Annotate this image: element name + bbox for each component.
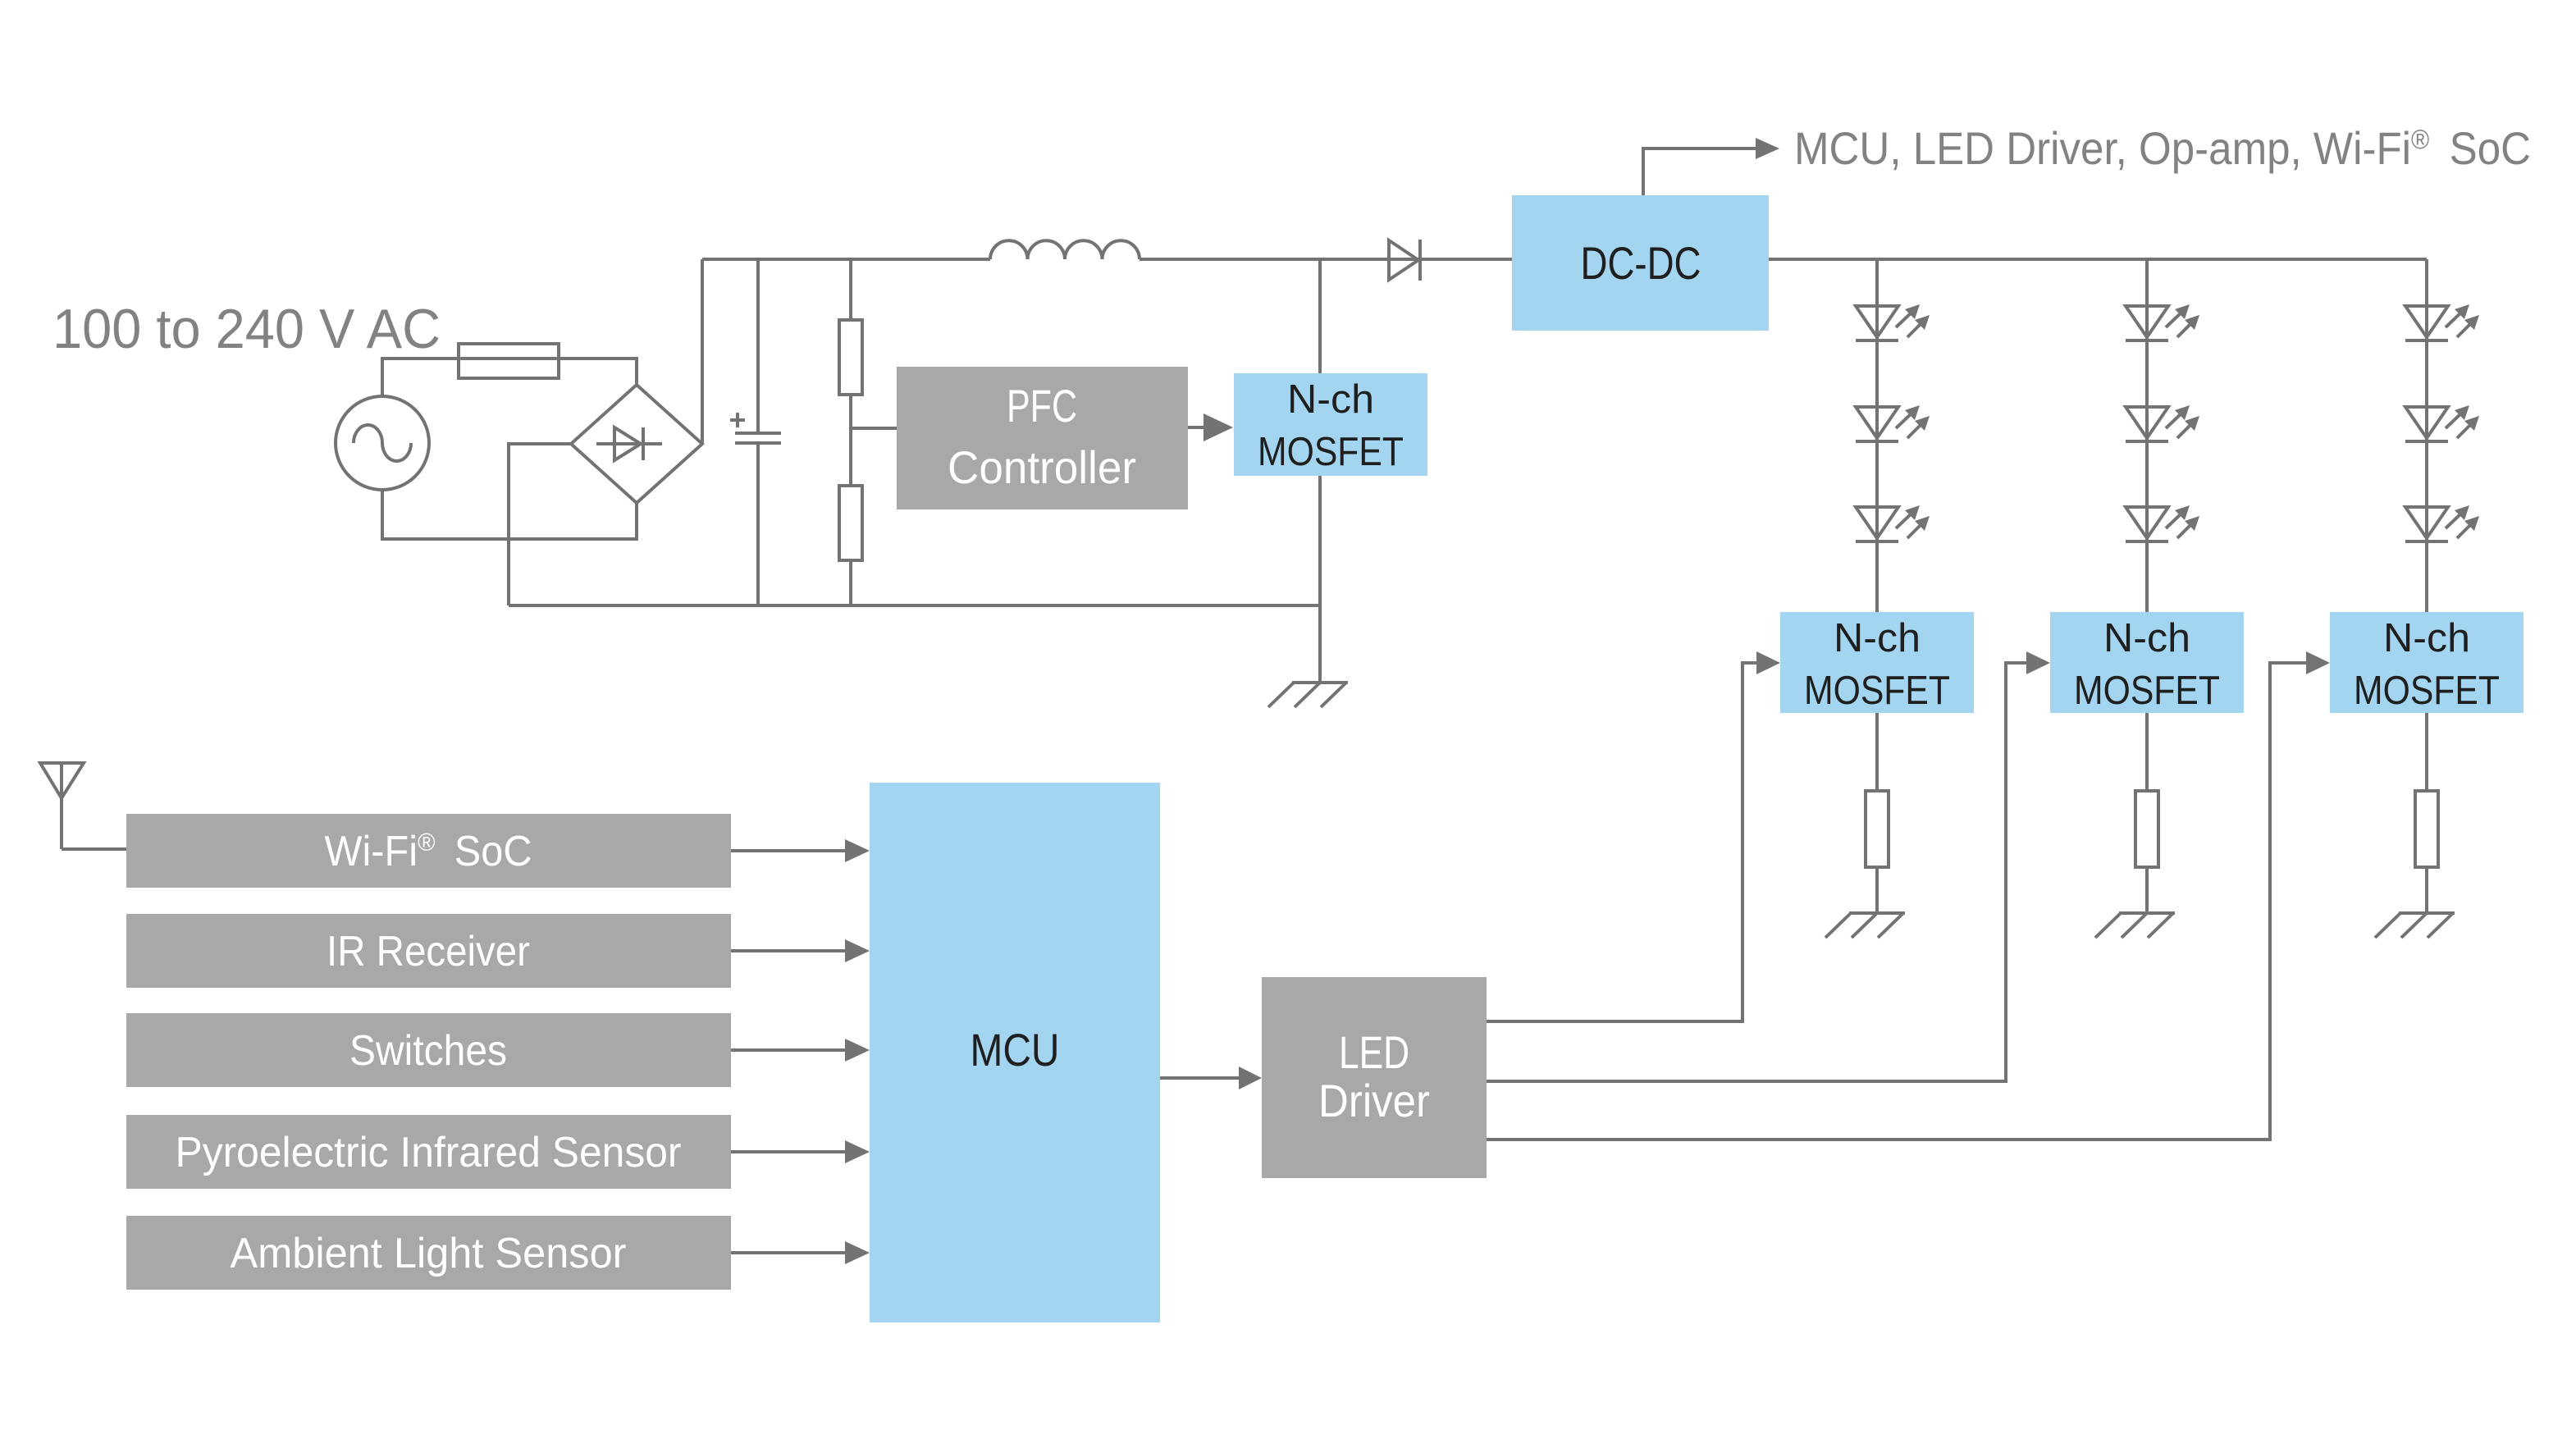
resistor R1 [839, 320, 862, 395]
wire: Q4 source to R5 [2425, 713, 2428, 791]
antenna ANT1 [40, 763, 84, 849]
wire: Q2 source to R3 [1875, 713, 1879, 791]
wire: Q1 source to ground [1318, 476, 1322, 683]
arrow: Ambient Light Sensor to MCU [731, 1241, 870, 1264]
ground: LED string Q4 [2375, 913, 2455, 938]
PFC controller U1 [897, 367, 1188, 509]
wire: top rail to R1 [849, 259, 852, 320]
wire: AC source top through fuse to bridge top vertex [382, 359, 637, 396]
arrow: Wi-Fi SoC to MCU [731, 839, 870, 862]
arrow: MCU to LED driver [1160, 1067, 1262, 1089]
svg-text:MCU: MCU [971, 1024, 1060, 1076]
wire: R4 to ground [2145, 867, 2149, 913]
svg-text:Ambient Light Sensor: Ambient Light Sensor [231, 1230, 627, 1277]
LED D7 [2126, 505, 2199, 541]
diode D1 [1389, 240, 1420, 281]
LED D6 [2126, 405, 2199, 441]
svg-text:MOSFET: MOSFET [1258, 430, 1404, 474]
N-ch MOSFET Q4 [2330, 612, 2523, 713]
resistor R4 [2135, 791, 2158, 867]
block: Pyroelectric Infrared Sensor [126, 1115, 731, 1189]
LED D3 [1856, 405, 1930, 441]
svg-text:N-ch: N-ch [1287, 377, 1374, 422]
resistor R3 [1866, 791, 1889, 867]
arrow: PFC controller to N-ch MOSFET Q1 gate [1188, 413, 1233, 441]
wire: bridge left vertex down to bottom rail [509, 444, 571, 605]
wire: DC-DC output up [1643, 148, 1756, 195]
block: Ambient Light Sensor [126, 1216, 731, 1290]
ground: PFC stage [1268, 683, 1348, 707]
LED D10 [2405, 505, 2479, 541]
wire: LED driver output to Q2 gate [1487, 663, 1756, 1021]
wire: AC source bottom to bridge bottom vertex [382, 490, 637, 539]
svg-text:PFC: PFC [1007, 380, 1077, 432]
MCU U3 [870, 783, 1160, 1322]
LED driver U4 [1262, 977, 1487, 1178]
svg-text:Driver: Driver [1318, 1075, 1430, 1126]
wire: R3 to ground [1875, 867, 1879, 913]
svg-text:MOSFET: MOSFET [1804, 669, 1950, 713]
ground: LED string Q3 [2095, 913, 2175, 938]
wire: Q3 source to R4 [2145, 713, 2149, 791]
svg-text:100 to 240 V AC: 100 to 240 V AC [53, 298, 441, 360]
wire: bottom rail [509, 604, 1320, 607]
LED D2 [1856, 304, 1930, 340]
wire: LED driver output to Q3 gate [1487, 663, 2026, 1081]
N-ch MOSFET Q1 [1234, 373, 1427, 476]
svg-text:DC-DC: DC-DC [1581, 237, 1701, 289]
LED D5 [2126, 304, 2199, 340]
svg-text:N-ch: N-ch [1834, 616, 1921, 660]
wire: LED supply rail [1769, 258, 2427, 261]
arrow: Pyroelectric Infrared Sensor to MCU [731, 1140, 870, 1163]
svg-text:IR Receiver: IR Receiver [327, 928, 530, 975]
wire: antenna to Wi-Fi SoC [62, 847, 126, 851]
N-ch MOSFET Q3 [2050, 612, 2244, 713]
wire: rail through LEDs to Q3 drain [2145, 259, 2149, 612]
block: IR Receiver [126, 914, 731, 988]
wire: divider tap to PFC controller [851, 427, 897, 430]
block: Switches [126, 1013, 731, 1087]
arrowhead: gate of Q4 [2306, 651, 2330, 674]
wire: rail through LEDs to Q4 drain [2425, 259, 2428, 612]
resistor R5 [2415, 791, 2438, 867]
ground: LED string Q2 [1825, 913, 1905, 938]
LED D9 [2405, 405, 2479, 441]
LED D8 [2405, 304, 2479, 340]
bridge rectifier BR1 [571, 385, 702, 503]
N-ch MOSFET Q2 [1780, 612, 1974, 713]
resistor R2 [839, 486, 862, 560]
fuse F1 [459, 344, 559, 378]
LED D4 [1856, 505, 1930, 541]
svg-text:Switches: Switches [349, 1027, 507, 1075]
arrowhead: gate of Q2 [1756, 651, 1780, 674]
arrow: IR Receiver to MCU [731, 939, 870, 962]
wire: rail through LEDs to Q2 drain [1875, 259, 1879, 612]
svg-text:Pyroelectric Infrared Sensor: Pyroelectric Infrared Sensor [176, 1129, 682, 1176]
block: Wi-Fi SoC [126, 814, 731, 888]
DC-DC converter U2 [1512, 195, 1769, 331]
wire: R2 to bottom rail [849, 560, 852, 605]
wire: bridge right vertex up to top rail [701, 259, 704, 444]
wire: LED driver output to Q4 gate [1487, 663, 2306, 1140]
inductor L1 [990, 240, 1140, 259]
arrow: Switches to MCU [731, 1039, 870, 1062]
svg-text:N-ch: N-ch [2103, 616, 2190, 660]
wire: R5 to ground [2425, 867, 2428, 913]
svg-text:MOSFET: MOSFET [2074, 669, 2220, 713]
svg-text:N-ch: N-ch [2383, 616, 2470, 660]
arrowhead: gate of Q3 [2026, 651, 2050, 674]
svg-text:LED: LED [1339, 1026, 1409, 1078]
wire: inductor through boost diode to DC-DC [1140, 258, 1512, 261]
AC source V1 [336, 396, 429, 490]
wire: R1 to R2 [849, 395, 852, 486]
arrowhead: DC-DC to loads [1756, 138, 1779, 159]
capacitor C1 [730, 259, 781, 605]
wire: top rail to Q1 drain [1318, 259, 1322, 373]
wire: top rail left segment [702, 258, 990, 261]
svg-text:Controller: Controller [948, 441, 1136, 493]
svg-text:MOSFET: MOSFET [2354, 669, 2500, 713]
